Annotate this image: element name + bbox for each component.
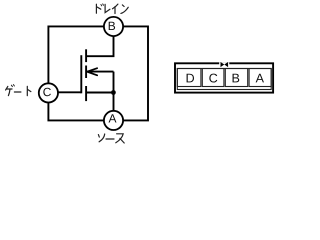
- channel segment bottom (source): [85, 86, 87, 101]
- label ゲート (gate): [6, 85, 31, 96]
- package outline (top view of flat package): [175, 63, 273, 92]
- package inner body rectangle: [177, 69, 271, 90]
- pin A box: [249, 69, 271, 87]
- channel segment middle (body): [85, 66, 87, 79]
- terminal A (source): [104, 111, 123, 130]
- terminal B (drain): [104, 17, 123, 36]
- transistor Q1 (n-channel MOSFET symbol): [81, 49, 113, 101]
- wire junction down to terminal A: [113, 93, 115, 112]
- body arrowhead (open barbs) pointing to channel: [87, 68, 97, 75]
- wire from terminal C bottom to terminal A left: [48, 102, 104, 120]
- junction dot (source/body node): [111, 90, 116, 95]
- gate electrode line: [80, 55, 82, 93]
- body arrow shaft: [87, 71, 114, 73]
- wire drain connection: transistor drain stub and riser up to terminal B: [86, 36, 114, 56]
- pin B box: [225, 69, 247, 87]
- label ソース (source): [98, 134, 124, 143]
- pin C box: [202, 69, 224, 87]
- terminal C (gate): [39, 83, 58, 102]
- wire source lead: transistor source to junction: [86, 92, 114, 94]
- pin D box: [177, 69, 201, 87]
- label ドレイン (drain): [96, 4, 128, 14]
- channel segment top (drain): [85, 49, 87, 62]
- wire from terminal B left to terminal C top: [48, 26, 104, 83]
- wire from terminal B right down to terminal A right: [123, 26, 148, 120]
- index mark (bowtie) on package top edge: [219, 62, 229, 66]
- wire gate lead: terminal C to transistor gate electrode: [58, 91, 82, 93]
- wire body-to-source: arrow line corner down to junction: [113, 72, 115, 93]
